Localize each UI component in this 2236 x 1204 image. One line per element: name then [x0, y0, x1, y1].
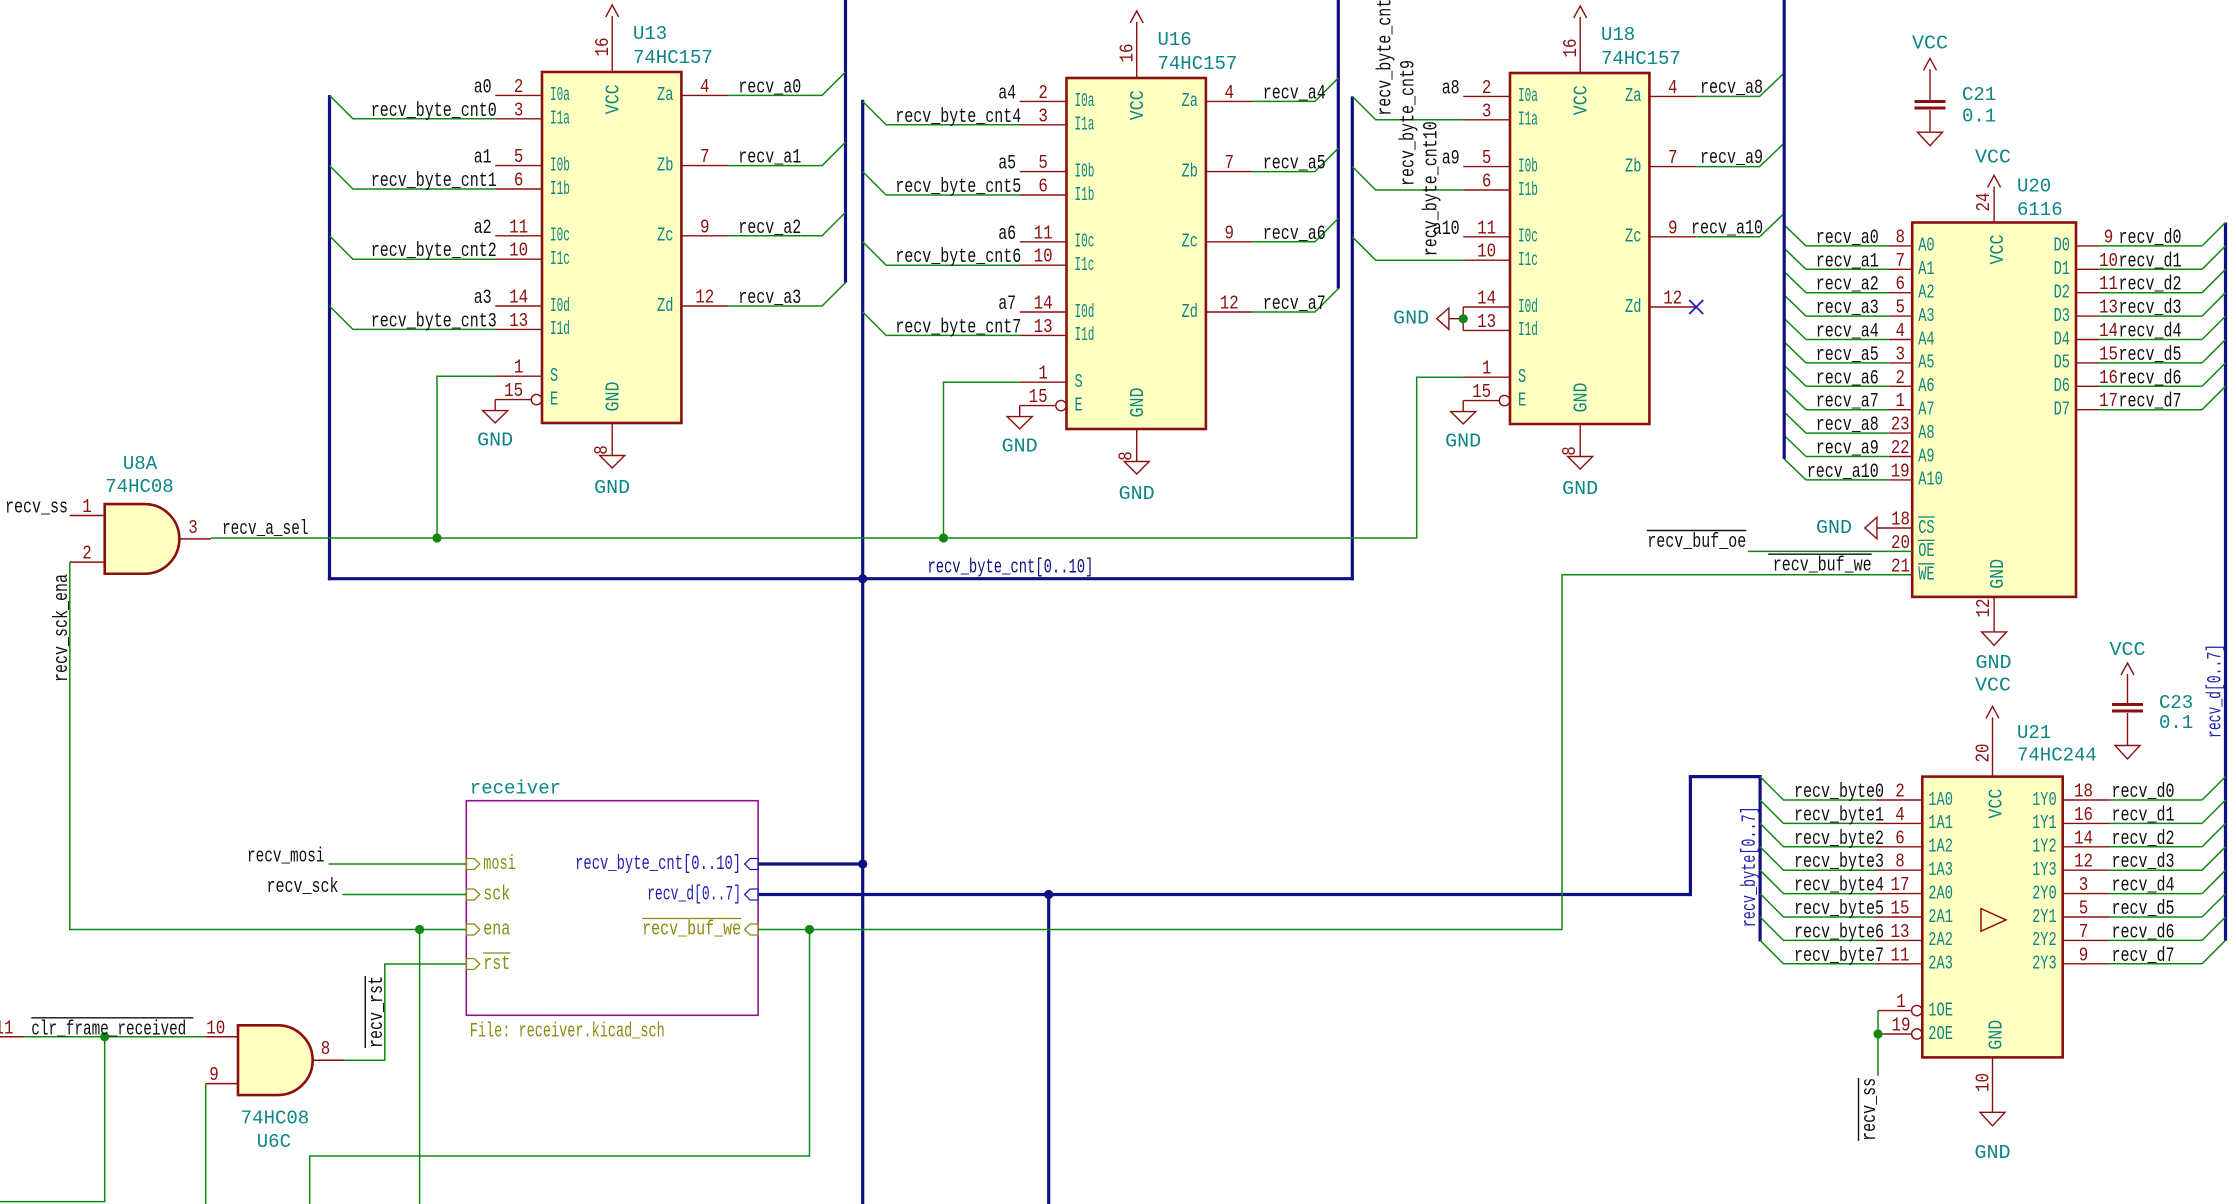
- svg-text:recv_a0: recv_a0: [1816, 227, 1879, 250]
- svg-text:recv_byte7: recv_byte7: [1794, 945, 1884, 968]
- svg-text:I1c: I1c: [550, 248, 570, 270]
- svg-text:recv_byte_cnt4: recv_byte_cnt4: [895, 106, 1021, 129]
- svg-text:U8A: U8A: [123, 453, 158, 475]
- svg-text:VCC: VCC: [1975, 147, 2011, 169]
- svg-text:a8: a8: [1442, 77, 1460, 100]
- svg-text:recv_buf_we: recv_buf_we: [1773, 555, 1872, 578]
- svg-text:recv_a4: recv_a4: [1263, 82, 1326, 105]
- svg-text:a3: a3: [474, 287, 492, 310]
- svg-text:recv_a2: recv_a2: [1816, 274, 1879, 297]
- svg-text:3: 3: [1038, 105, 1048, 127]
- svg-text:recv_a1: recv_a1: [738, 147, 801, 170]
- svg-text:recv_byte_cnt[0..10]: recv_byte_cnt[0..10]: [575, 853, 741, 876]
- svg-text:recv_d0: recv_d0: [2112, 781, 2175, 804]
- svg-text:9: 9: [2079, 944, 2089, 966]
- svg-text:recv_d4: recv_d4: [2112, 875, 2175, 898]
- svg-text:D1: D1: [2054, 258, 2070, 280]
- svg-text:12: 12: [1220, 293, 1239, 315]
- svg-text:recv_d2: recv_d2: [2112, 828, 2175, 851]
- svg-text:WE: WE: [1918, 564, 1934, 586]
- svg-text:recv_d3: recv_d3: [2119, 297, 2182, 320]
- svg-text:recv_byte_cnt3: recv_byte_cnt3: [371, 310, 497, 333]
- svg-text:16: 16: [1117, 44, 1139, 63]
- svg-text:recv_d6: recv_d6: [2112, 921, 2175, 944]
- svg-text:7: 7: [700, 146, 710, 168]
- svg-text:recv_a5: recv_a5: [1263, 153, 1326, 176]
- svg-text:recv_a7: recv_a7: [1263, 293, 1326, 316]
- svg-text:U20: U20: [2017, 176, 2051, 198]
- svg-text:CS: CS: [1918, 517, 1934, 539]
- svg-text:74HC157: 74HC157: [1158, 53, 1238, 75]
- svg-text:11: 11: [509, 216, 528, 238]
- svg-text:GND: GND: [1127, 388, 1149, 418]
- svg-text:A6: A6: [1918, 375, 1934, 397]
- svg-text:2A3: 2A3: [1928, 953, 1953, 975]
- svg-text:recv_buf_we: recv_buf_we: [642, 918, 741, 941]
- svg-text:recv_a3: recv_a3: [1816, 297, 1879, 320]
- svg-text:16: 16: [1560, 39, 1582, 58]
- svg-text:19: 19: [1892, 1015, 1911, 1037]
- svg-text:1: 1: [1038, 363, 1048, 385]
- svg-text:VCC: VCC: [1127, 90, 1149, 120]
- svg-text:U21: U21: [2017, 722, 2051, 744]
- svg-text:Za: Za: [657, 84, 673, 106]
- svg-text:a0: a0: [474, 76, 492, 99]
- svg-text:I0a: I0a: [1518, 85, 1538, 107]
- svg-text:11: 11: [0, 1017, 14, 1039]
- svg-text:S: S: [1075, 371, 1083, 393]
- svg-text:I0b: I0b: [1518, 155, 1538, 177]
- svg-text:A1: A1: [1918, 258, 1934, 280]
- svg-text:1: 1: [1896, 991, 1906, 1013]
- svg-text:2Y0: 2Y0: [2032, 882, 2057, 904]
- svg-text:U13: U13: [633, 23, 667, 45]
- svg-text:I1a: I1a: [1518, 109, 1538, 131]
- svg-text:13: 13: [1477, 311, 1496, 333]
- svg-text:I1b: I1b: [1518, 179, 1538, 201]
- svg-text:2: 2: [1895, 367, 1905, 389]
- svg-text:2: 2: [82, 543, 92, 565]
- svg-text:6: 6: [1038, 176, 1048, 198]
- svg-text:17: 17: [1891, 874, 1910, 896]
- svg-text:10: 10: [1477, 241, 1496, 263]
- svg-text:Zd: Zd: [657, 295, 673, 317]
- svg-text:8: 8: [1559, 446, 1581, 456]
- svg-text:recv_byte_cnt7: recv_byte_cnt7: [895, 316, 1021, 339]
- svg-text:GND: GND: [1119, 483, 1155, 505]
- svg-text:recv_mosi: recv_mosi: [247, 846, 325, 869]
- svg-text:5: 5: [1038, 152, 1048, 174]
- svg-text:3: 3: [188, 517, 198, 539]
- svg-text:C21: C21: [1962, 84, 1996, 106]
- svg-text:I0d: I0d: [1518, 296, 1538, 318]
- svg-text:I0b: I0b: [1075, 160, 1095, 182]
- svg-text:11: 11: [1891, 944, 1910, 966]
- svg-text:a5: a5: [998, 153, 1016, 176]
- svg-text:recv_byte_cnt9: recv_byte_cnt9: [1397, 60, 1420, 186]
- svg-text:recv_buf_oe: recv_buf_oe: [1647, 531, 1746, 554]
- svg-text:2Y3: 2Y3: [2032, 953, 2057, 975]
- svg-text:GND: GND: [1987, 559, 2009, 589]
- svg-text:I1a: I1a: [550, 108, 570, 130]
- svg-text:recv_a10: recv_a10: [1807, 461, 1879, 484]
- svg-text:clr_frame_received: clr_frame_received: [31, 1018, 186, 1041]
- svg-text:recv_byte4: recv_byte4: [1794, 875, 1884, 898]
- svg-text:recv_a1: recv_a1: [1816, 250, 1879, 273]
- svg-text:OE: OE: [1918, 540, 1934, 562]
- svg-text:GND: GND: [603, 382, 625, 412]
- svg-text:I0a: I0a: [550, 84, 570, 106]
- svg-text:6: 6: [1895, 273, 1905, 295]
- svg-text:2A2: 2A2: [1928, 929, 1953, 951]
- svg-text:3: 3: [514, 99, 524, 121]
- svg-text:GND: GND: [1975, 1142, 2011, 1164]
- svg-text:I0a: I0a: [1075, 90, 1095, 112]
- svg-text:2A0: 2A0: [1928, 882, 1953, 904]
- svg-text:5: 5: [1482, 147, 1492, 169]
- svg-text:2: 2: [1038, 82, 1048, 104]
- svg-text:9: 9: [1668, 217, 1678, 239]
- svg-text:GND: GND: [1986, 1020, 2008, 1050]
- svg-text:U6C: U6C: [257, 1131, 291, 1153]
- svg-text:1: 1: [1895, 390, 1905, 412]
- svg-text:16: 16: [592, 38, 614, 57]
- svg-text:recv_d1: recv_d1: [2119, 250, 2182, 273]
- svg-text:recv_byte[0..7]: recv_byte[0..7]: [1739, 806, 1762, 927]
- svg-text:10: 10: [2099, 250, 2118, 272]
- svg-text:15: 15: [2099, 343, 2118, 365]
- svg-text:7: 7: [2079, 921, 2089, 943]
- svg-text:11: 11: [2099, 273, 2118, 295]
- svg-text:3: 3: [1482, 100, 1492, 122]
- svg-text:23: 23: [1891, 414, 1910, 436]
- svg-text:I0c: I0c: [550, 225, 570, 247]
- svg-text:13: 13: [1891, 921, 1910, 943]
- svg-text:2: 2: [514, 76, 524, 98]
- svg-text:20: 20: [1973, 744, 1995, 763]
- svg-text:1OE: 1OE: [1928, 999, 1953, 1021]
- svg-text:GND: GND: [1571, 383, 1593, 413]
- svg-text:14: 14: [1477, 288, 1496, 310]
- svg-text:14: 14: [2099, 320, 2118, 342]
- svg-text:Za: Za: [1182, 90, 1198, 112]
- svg-text:16: 16: [2099, 367, 2118, 389]
- svg-text:13: 13: [1034, 316, 1053, 338]
- svg-text:recv_a3: recv_a3: [738, 287, 801, 310]
- svg-text:1A2: 1A2: [1928, 836, 1953, 858]
- svg-text:2Y2: 2Y2: [2032, 929, 2057, 951]
- svg-text:15: 15: [1029, 386, 1048, 408]
- svg-text:recv_a5: recv_a5: [1816, 344, 1879, 367]
- svg-text:recv_sck_ena: recv_sck_ena: [51, 574, 74, 682]
- svg-text:recv_a_sel: recv_a_sel: [222, 518, 309, 541]
- svg-text:recv_ss: recv_ss: [5, 497, 68, 520]
- svg-text:2A1: 2A1: [1928, 906, 1953, 928]
- svg-text:74HC244: 74HC244: [2017, 745, 2097, 767]
- svg-text:Zd: Zd: [1182, 301, 1198, 323]
- svg-text:recv_a7: recv_a7: [1816, 391, 1879, 414]
- svg-text:1Y1: 1Y1: [2032, 812, 2057, 834]
- svg-text:receiver: receiver: [470, 777, 561, 799]
- svg-text:4: 4: [1668, 77, 1678, 99]
- svg-text:19: 19: [1891, 460, 1910, 482]
- svg-text:GND: GND: [1393, 308, 1429, 330]
- svg-text:10: 10: [509, 240, 528, 262]
- svg-text:A9: A9: [1918, 445, 1934, 467]
- svg-text:recv_byte2: recv_byte2: [1794, 828, 1884, 851]
- svg-text:16: 16: [2074, 804, 2093, 826]
- svg-text:12: 12: [1663, 288, 1682, 310]
- svg-text:recv_d3: recv_d3: [2112, 851, 2175, 874]
- svg-text:8: 8: [1895, 226, 1905, 248]
- svg-text:2Y1: 2Y1: [2032, 906, 2057, 928]
- svg-text:D7: D7: [2054, 399, 2070, 421]
- svg-text:1A3: 1A3: [1928, 859, 1953, 881]
- svg-text:a1: a1: [474, 147, 492, 170]
- svg-text:VCC: VCC: [1912, 33, 1948, 55]
- svg-text:recv_ss: recv_ss: [1859, 1078, 1882, 1141]
- svg-text:VCC: VCC: [2110, 639, 2146, 661]
- svg-text:3: 3: [1895, 343, 1905, 365]
- svg-text:recv_byte_cnt6: recv_byte_cnt6: [895, 246, 1021, 269]
- svg-text:22: 22: [1891, 437, 1910, 459]
- svg-text:13: 13: [509, 310, 528, 332]
- svg-text:10: 10: [1973, 1073, 1995, 1092]
- svg-text:11: 11: [1034, 222, 1053, 244]
- svg-text:21: 21: [1891, 555, 1910, 577]
- svg-text:a9: a9: [1442, 148, 1460, 171]
- svg-text:10: 10: [1034, 246, 1053, 268]
- svg-text:Zd: Zd: [1625, 296, 1641, 318]
- svg-text:1A0: 1A0: [1928, 789, 1953, 811]
- svg-text:recv_a9: recv_a9: [1700, 147, 1763, 170]
- svg-text:recv_byte0: recv_byte0: [1794, 781, 1884, 804]
- svg-text:File: receiver.kicad_sch: File: receiver.kicad_sch: [470, 1020, 665, 1043]
- svg-text:GND: GND: [594, 477, 630, 499]
- svg-text:D4: D4: [2054, 328, 2070, 350]
- svg-text:0.1: 0.1: [1962, 105, 1996, 127]
- svg-text:recv_byte_cnt0: recv_byte_cnt0: [371, 100, 497, 123]
- svg-text:14: 14: [2074, 827, 2093, 849]
- svg-text:VCC: VCC: [1987, 235, 2009, 265]
- svg-text:VCC: VCC: [1571, 85, 1593, 115]
- svg-text:U16: U16: [1158, 29, 1192, 51]
- svg-text:recv_sck: recv_sck: [267, 876, 339, 899]
- svg-text:2: 2: [1482, 77, 1492, 99]
- svg-text:I1a: I1a: [1075, 114, 1095, 136]
- svg-text:VCC: VCC: [603, 84, 625, 114]
- svg-text:I1b: I1b: [550, 178, 570, 200]
- svg-text:E: E: [1075, 394, 1083, 416]
- svg-text:a2: a2: [474, 217, 492, 240]
- svg-text:a7: a7: [998, 293, 1016, 316]
- svg-text:1: 1: [82, 496, 92, 518]
- svg-text:E: E: [550, 388, 558, 410]
- svg-text:D2: D2: [2054, 282, 2070, 304]
- svg-text:recv_d[0..7]: recv_d[0..7]: [2205, 644, 2228, 738]
- svg-text:4: 4: [1895, 804, 1905, 826]
- svg-text:recv_a8: recv_a8: [1816, 414, 1879, 437]
- svg-text:D5: D5: [2054, 352, 2070, 374]
- svg-text:1Y3: 1Y3: [2032, 859, 2057, 881]
- svg-text:I1d: I1d: [1518, 319, 1538, 341]
- svg-text:6: 6: [1482, 171, 1492, 193]
- svg-text:a6: a6: [998, 223, 1016, 246]
- svg-text:8: 8: [1895, 851, 1905, 873]
- svg-text:D6: D6: [2054, 375, 2070, 397]
- svg-text:A4: A4: [1918, 328, 1934, 350]
- svg-text:15: 15: [1891, 898, 1910, 920]
- svg-text:recv_d5: recv_d5: [2119, 344, 2182, 367]
- svg-text:S: S: [550, 365, 558, 387]
- svg-text:9: 9: [209, 1064, 219, 1086]
- svg-text:7: 7: [1668, 147, 1678, 169]
- svg-text:A2: A2: [1918, 282, 1934, 304]
- svg-text:13: 13: [2099, 297, 2118, 319]
- svg-text:recv_d2: recv_d2: [2119, 274, 2182, 297]
- svg-text:74HC08: 74HC08: [105, 476, 173, 498]
- svg-text:recv_a9: recv_a9: [1816, 438, 1879, 461]
- svg-text:rst: rst: [483, 953, 510, 976]
- svg-text:GND: GND: [1976, 652, 2012, 674]
- svg-text:9: 9: [2104, 226, 2114, 248]
- svg-text:recv_a8: recv_a8: [1700, 77, 1763, 100]
- svg-text:recv_d1: recv_d1: [2112, 804, 2175, 827]
- svg-text:S: S: [1518, 366, 1526, 388]
- svg-text:recv_a10: recv_a10: [1691, 217, 1763, 240]
- svg-text:9: 9: [1225, 222, 1235, 244]
- svg-text:recv_byte3: recv_byte3: [1794, 851, 1884, 874]
- svg-text:12: 12: [695, 287, 714, 309]
- svg-text:9: 9: [700, 216, 710, 238]
- svg-text:recv_byte1: recv_byte1: [1794, 804, 1884, 827]
- svg-text:recv_byte_cnt2: recv_byte_cnt2: [371, 240, 497, 263]
- svg-text:recv_byte_cnt5: recv_byte_cnt5: [895, 176, 1021, 199]
- svg-text:1A1: 1A1: [1928, 812, 1953, 834]
- svg-text:2OE: 2OE: [1928, 1023, 1953, 1045]
- svg-text:5: 5: [1895, 297, 1905, 319]
- svg-text:8: 8: [591, 445, 613, 455]
- svg-text:GND: GND: [1562, 478, 1598, 500]
- svg-text:recv_d5: recv_d5: [2112, 898, 2175, 921]
- svg-text:recv_d[0..7]: recv_d[0..7]: [647, 883, 741, 906]
- svg-text:I0c: I0c: [1075, 231, 1095, 253]
- svg-text:recv_byte6: recv_byte6: [1794, 921, 1884, 944]
- svg-text:12: 12: [2074, 851, 2093, 873]
- svg-text:15: 15: [1472, 381, 1491, 403]
- svg-text:8: 8: [321, 1038, 331, 1060]
- svg-text:mosi: mosi: [483, 853, 516, 876]
- svg-text:14: 14: [1034, 293, 1053, 315]
- svg-text:VCC: VCC: [1975, 674, 2011, 696]
- svg-text:recv_a6: recv_a6: [1263, 223, 1326, 246]
- svg-text:74HC08: 74HC08: [241, 1107, 309, 1129]
- svg-text:6: 6: [514, 170, 524, 192]
- svg-text:recv_d7: recv_d7: [2112, 945, 2175, 968]
- svg-text:recv_d0: recv_d0: [2119, 227, 2182, 250]
- svg-text:8: 8: [1116, 451, 1138, 461]
- svg-text:4: 4: [1895, 320, 1905, 342]
- svg-text:1Y2: 1Y2: [2032, 836, 2057, 858]
- svg-text:Zb: Zb: [657, 154, 673, 176]
- svg-text:6116: 6116: [2017, 199, 2063, 221]
- svg-text:Zc: Zc: [1625, 226, 1641, 248]
- svg-text:A10: A10: [1918, 469, 1943, 491]
- svg-text:11: 11: [1477, 217, 1496, 239]
- svg-text:0.1: 0.1: [2159, 712, 2193, 734]
- svg-text:GND: GND: [477, 430, 513, 452]
- svg-text:4: 4: [700, 76, 710, 98]
- svg-text:Zb: Zb: [1625, 155, 1641, 177]
- svg-text:I0d: I0d: [1075, 301, 1095, 323]
- svg-text:20: 20: [1891, 532, 1910, 554]
- svg-text:recv_a4: recv_a4: [1816, 321, 1879, 344]
- svg-text:7: 7: [1225, 152, 1235, 174]
- svg-text:A7: A7: [1918, 399, 1934, 421]
- svg-text:recv_d7: recv_d7: [2119, 391, 2182, 414]
- svg-text:ena: ena: [483, 918, 510, 941]
- svg-text:1: 1: [514, 357, 524, 379]
- svg-text:GND: GND: [1445, 431, 1481, 453]
- svg-text:recv_a0: recv_a0: [738, 76, 801, 99]
- svg-text:10: 10: [206, 1017, 225, 1039]
- svg-text:recv_a6: recv_a6: [1816, 367, 1879, 390]
- svg-text:7: 7: [1895, 250, 1905, 272]
- svg-text:I1d: I1d: [550, 318, 570, 340]
- svg-text:C23: C23: [2159, 692, 2193, 714]
- svg-text:2: 2: [1895, 781, 1905, 803]
- svg-text:a4: a4: [998, 82, 1016, 105]
- svg-text:I0b: I0b: [550, 154, 570, 176]
- svg-text:recv_byte5: recv_byte5: [1794, 898, 1884, 921]
- svg-text:18: 18: [2074, 781, 2093, 803]
- svg-text:5: 5: [514, 146, 524, 168]
- svg-text:I1c: I1c: [1518, 249, 1538, 271]
- svg-text:17: 17: [2099, 390, 2118, 412]
- svg-text:18: 18: [1891, 509, 1910, 531]
- svg-text:recv_byte_cnt1: recv_byte_cnt1: [371, 170, 497, 193]
- svg-text:A5: A5: [1918, 352, 1934, 374]
- svg-text:15: 15: [504, 380, 523, 402]
- svg-text:74HC157: 74HC157: [633, 47, 713, 69]
- svg-text:GND: GND: [1002, 436, 1038, 458]
- svg-text:recv_d4: recv_d4: [2119, 321, 2182, 344]
- svg-text:4: 4: [1225, 82, 1235, 104]
- svg-text:12: 12: [1973, 599, 1995, 618]
- svg-text:E: E: [1518, 389, 1526, 411]
- svg-text:A3: A3: [1918, 305, 1934, 327]
- svg-text:I0c: I0c: [1518, 226, 1538, 248]
- svg-text:Zc: Zc: [657, 225, 673, 247]
- svg-text:24: 24: [1973, 193, 1995, 212]
- svg-text:D3: D3: [2054, 305, 2070, 327]
- svg-text:6: 6: [1895, 827, 1905, 849]
- svg-text:I1c: I1c: [1075, 254, 1095, 276]
- svg-text:74HC157: 74HC157: [1601, 48, 1681, 70]
- svg-text:I1d: I1d: [1075, 324, 1095, 346]
- svg-text:recv_a2: recv_a2: [738, 217, 801, 240]
- svg-text:VCC: VCC: [1986, 789, 2008, 819]
- svg-text:U18: U18: [1601, 24, 1635, 46]
- svg-text:D0: D0: [2054, 235, 2070, 257]
- svg-text:3: 3: [2079, 874, 2089, 896]
- svg-text:5: 5: [2079, 898, 2089, 920]
- svg-text:Zb: Zb: [1182, 160, 1198, 182]
- svg-text:A0: A0: [1918, 235, 1934, 257]
- svg-text:GND: GND: [1816, 517, 1852, 539]
- svg-text:recv_rst: recv_rst: [366, 976, 389, 1048]
- svg-text:1Y0: 1Y0: [2032, 789, 2057, 811]
